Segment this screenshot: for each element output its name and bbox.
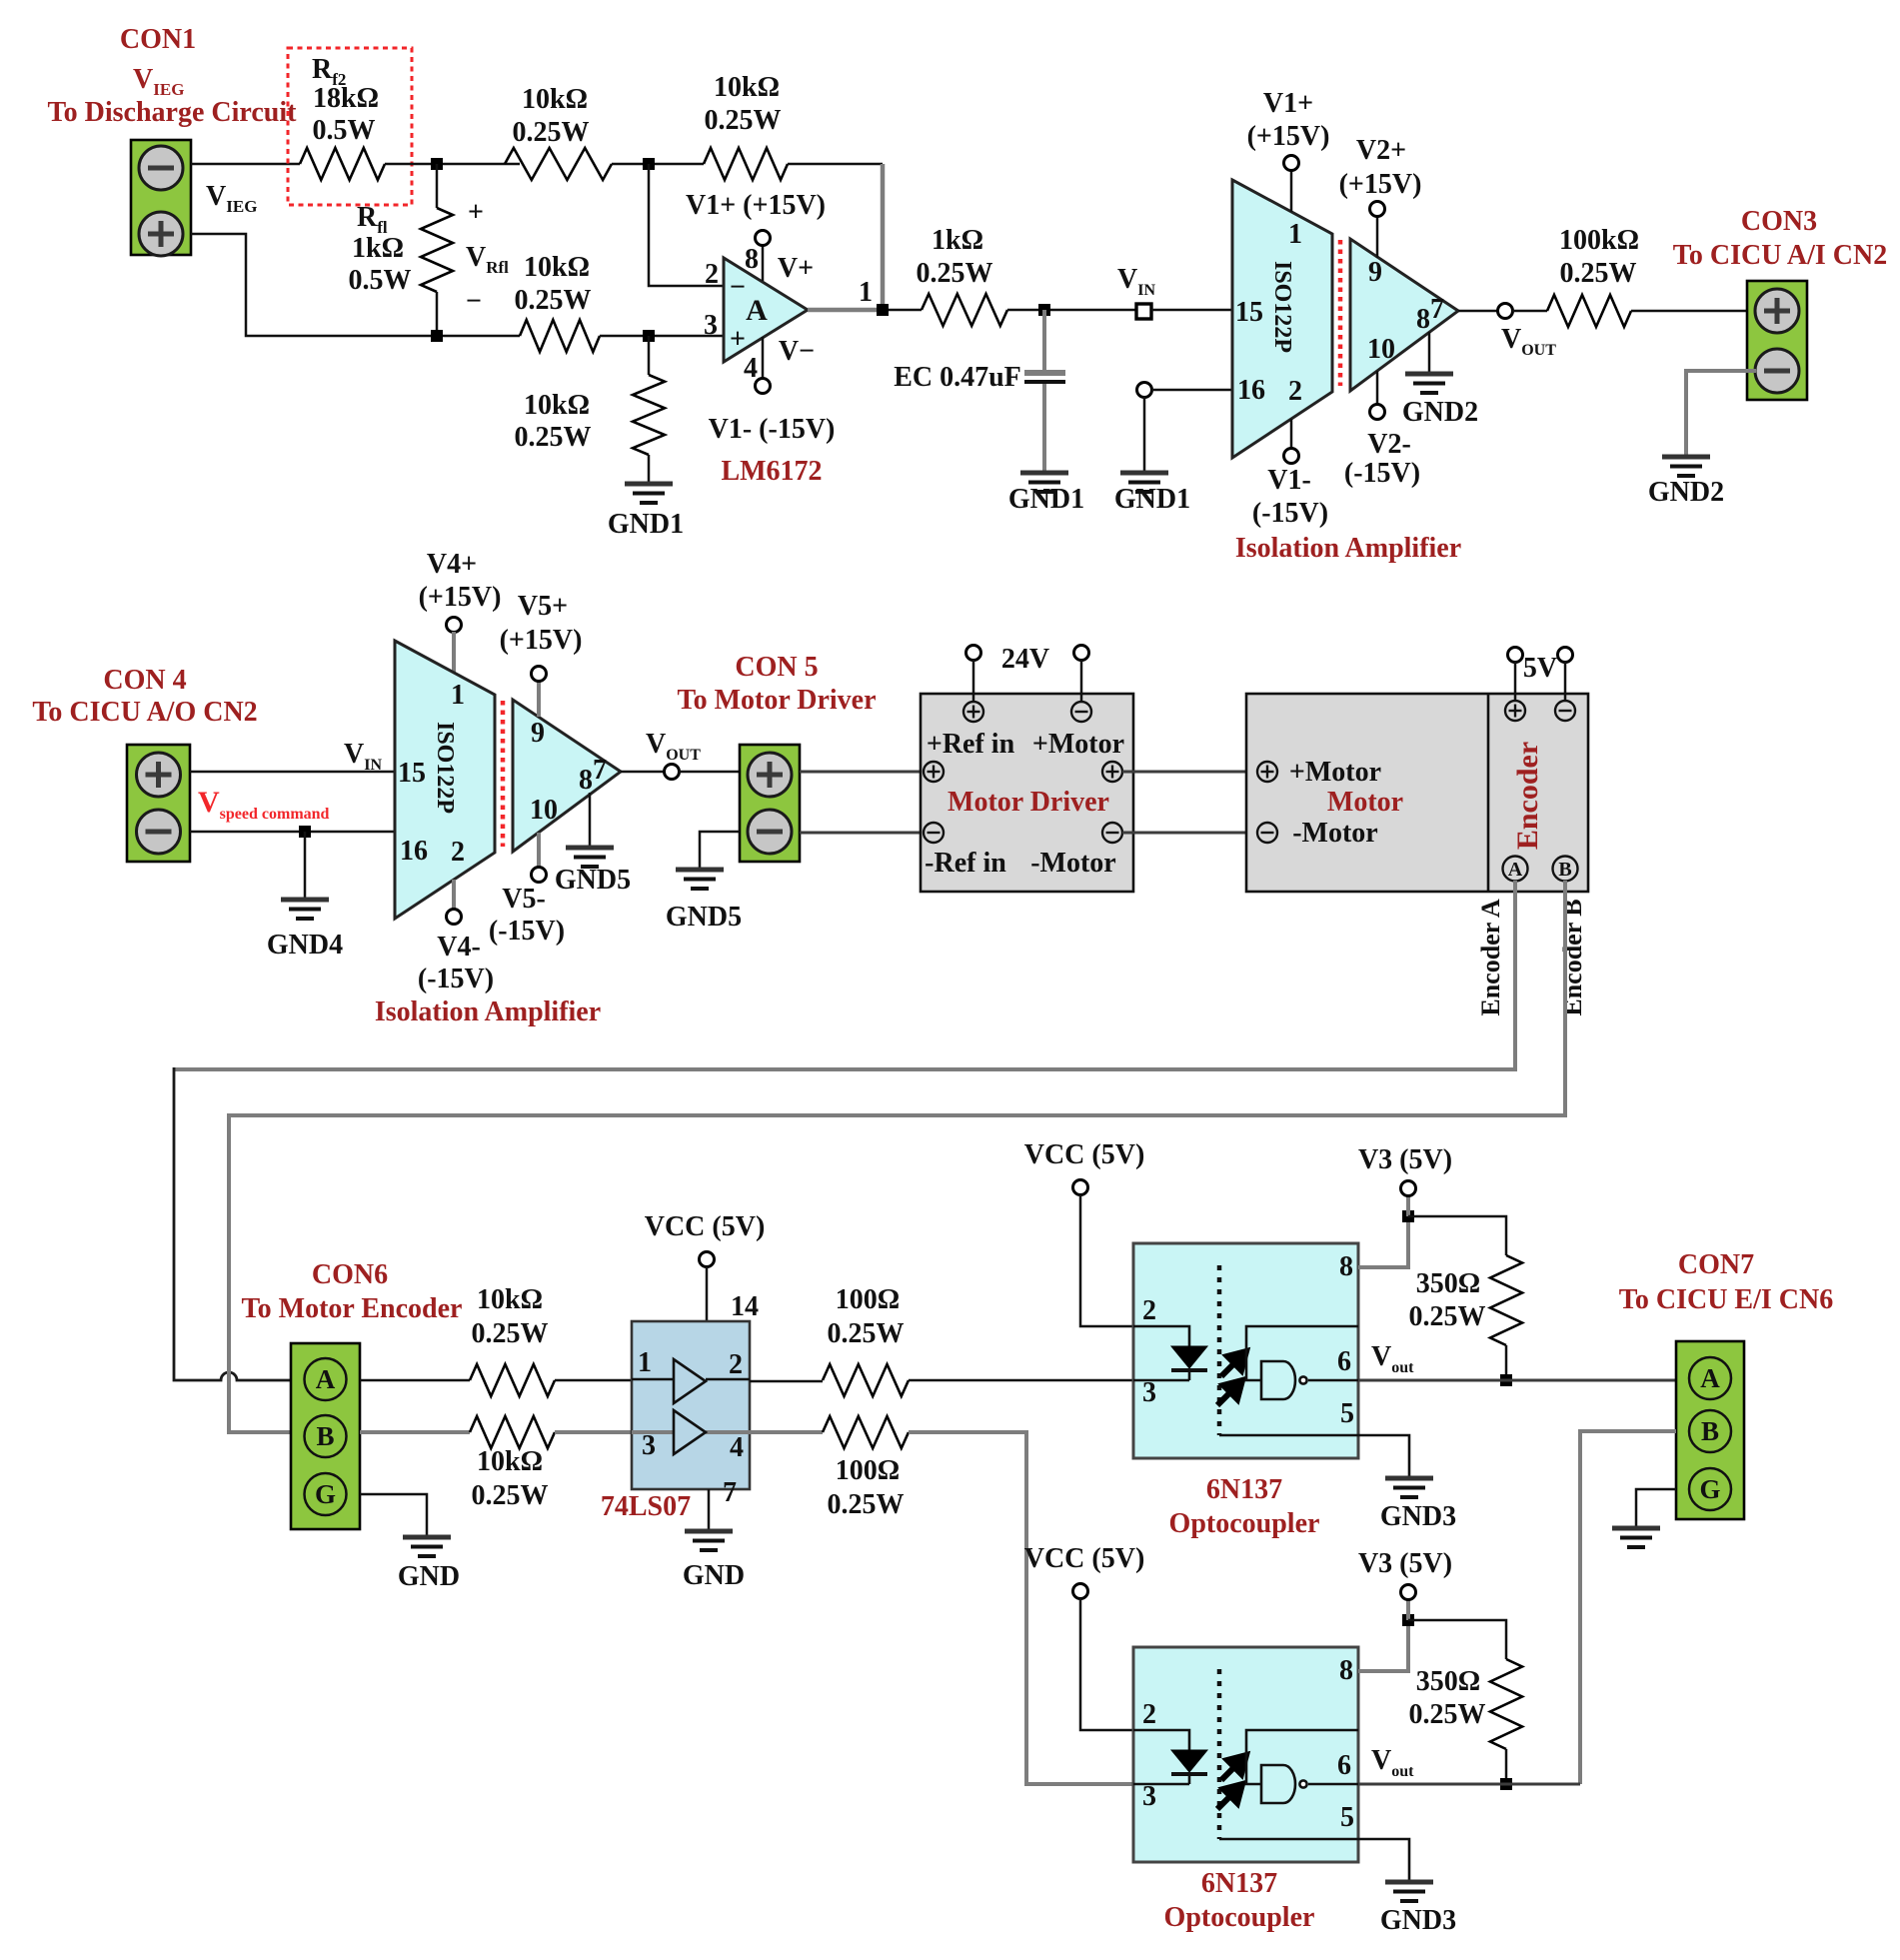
motor driver +Motor terminal	[1102, 762, 1122, 782]
resistor R11 350 0.25W	[1490, 1255, 1522, 1345]
wire R6 to CON3	[1631, 310, 1747, 313]
svg-text:18kΩ: 18kΩ	[313, 83, 379, 114]
svg-text:GND3: GND3	[1380, 1905, 1456, 1936]
svg-text:V1-: V1-	[1267, 465, 1311, 496]
motor -Motor terminal	[1257, 823, 1277, 843]
wire U4 internal B out	[706, 1430, 750, 1434]
svg-text:Isolation Amplifier: Isolation Amplifier	[375, 996, 601, 1027]
resistor Rf2 18k 0.5W	[300, 148, 385, 180]
wire R3 to op-amp pin3	[600, 335, 724, 338]
svg-text:1: 1	[638, 1347, 652, 1378]
op-amp U1 pin 8 V+ stub	[762, 245, 765, 281]
optocoupler U6 isolation dotted line	[1217, 1669, 1222, 1839]
svg-text:GND2: GND2	[1648, 477, 1724, 508]
U3 V4- supply stub	[452, 880, 456, 910]
wire R10 to opto U6 pin 3	[909, 1432, 1133, 1784]
buffer U4 74LS07 body	[632, 1321, 750, 1489]
svg-text:8: 8	[745, 244, 759, 275]
wire CON4- to U3 pin 16	[190, 831, 395, 834]
svg-text:Optocoupler: Optocoupler	[1169, 1508, 1320, 1539]
stub V3 terminal U6	[1406, 1599, 1410, 1620]
junction output feedback node	[877, 304, 889, 316]
wire U4 internal A out	[706, 1378, 750, 1381]
optocoupler U5 LED diode	[1133, 1326, 1189, 1346]
resistor R12 350 0.25W	[1490, 1659, 1522, 1749]
connector CON4 terminal block	[127, 745, 190, 862]
svg-text:0.25W: 0.25W	[472, 1480, 549, 1511]
motor driver module box	[921, 694, 1133, 892]
svg-text:-Motor: -Motor	[1030, 848, 1116, 879]
svg-text:1kΩ: 1kΩ	[352, 233, 404, 264]
isolation amplifier U2 ISO122P input trapezoid	[1232, 180, 1332, 458]
svg-text:+Motor: +Motor	[1289, 757, 1381, 788]
junction R11 Vout node	[1500, 1374, 1512, 1386]
svg-text:1: 1	[859, 277, 873, 308]
U2 V1+ supply stub	[1290, 170, 1293, 212]
ground GND under CON6	[403, 1537, 451, 1556]
svg-text:-Motor: -Motor	[1292, 818, 1378, 849]
wire U4 internal B	[632, 1430, 674, 1434]
svg-text:0.25W: 0.25W	[515, 285, 592, 316]
U5 pin 5 wire to GND3	[1219, 1435, 1409, 1476]
svg-text:VCC (5V): VCC (5V)	[1024, 1139, 1145, 1170]
ground under CON7 G	[1612, 1528, 1660, 1547]
svg-text:A: A	[746, 294, 768, 327]
wire R1 to R2	[612, 163, 704, 166]
optocoupler U6 6N137 body	[1133, 1647, 1358, 1862]
svg-text:−: −	[730, 272, 746, 303]
node VOUT terminal	[1498, 304, 1513, 319]
svg-text:V1+: V1+	[1263, 88, 1313, 119]
svg-text:0.25W: 0.25W	[828, 1318, 905, 1349]
ground GND2 under U2	[1405, 374, 1453, 393]
svg-text:−: −	[466, 286, 482, 317]
wire output to R5	[883, 309, 922, 312]
svg-text:V3 (5V): V3 (5V)	[1358, 1548, 1452, 1579]
encoder 5V supply terminals	[1508, 648, 1523, 663]
wire junction to R4	[648, 336, 651, 375]
optocoupler U6 LED diode	[1133, 1730, 1189, 1750]
svg-text:Encoder A: Encoder A	[1476, 899, 1505, 1015]
motor driver +Ref in terminal	[924, 762, 944, 782]
svg-text:0.25W: 0.25W	[917, 258, 993, 289]
svg-text:100Ω: 100Ω	[836, 1455, 900, 1486]
motor driver +24V terminal	[963, 702, 983, 722]
node VIN terminal	[1136, 304, 1151, 319]
svg-text:GND4: GND4	[267, 930, 343, 961]
svg-text:0.25W: 0.25W	[1409, 1301, 1486, 1332]
svg-text:B: B	[316, 1421, 334, 1451]
svg-text:V3 (5V): V3 (5V)	[1358, 1144, 1452, 1175]
wire R7 to 74LS07 pin 1	[555, 1379, 632, 1382]
junction GND4 node	[299, 826, 311, 838]
motor driver -Ref in terminal	[924, 823, 944, 843]
svg-text:1: 1	[1288, 219, 1302, 250]
capacitor EC 0.47uF	[1042, 310, 1046, 371]
svg-text:5: 5	[1340, 1398, 1354, 1429]
svg-text:VCC (5V): VCC (5V)	[645, 1211, 766, 1242]
wire VOUT2 to CON5	[679, 771, 740, 774]
svg-text:GND5: GND5	[555, 865, 631, 896]
wire VCC to U5 pin 2	[1080, 1194, 1133, 1326]
svg-text:To Discharge Circuit: To Discharge Circuit	[48, 97, 298, 128]
junction R4 top	[643, 330, 655, 342]
connector CON6 terminal block	[291, 1343, 360, 1529]
svg-text:V+: V+	[778, 253, 814, 284]
wire Rf2 to 10k R1	[385, 163, 520, 166]
resistor Rf1 1k 0.5W	[421, 208, 453, 292]
svg-text:14: 14	[731, 1291, 759, 1322]
motor driver -Motor terminal	[1102, 823, 1122, 843]
svg-text:V1- (-15V): V1- (-15V)	[709, 414, 836, 445]
junction capacitor EC top	[1038, 304, 1050, 316]
svg-text:+: +	[468, 197, 484, 228]
svg-text:LM6172: LM6172	[721, 456, 822, 487]
svg-text:0.5W: 0.5W	[349, 265, 412, 296]
U3 V4+ terminal	[447, 618, 462, 633]
svg-text:+: +	[730, 324, 746, 355]
wire R11 to Vout	[1505, 1345, 1508, 1380]
wire R8 to 74LS07 pin 3	[555, 1430, 632, 1434]
svg-text:A: A	[1700, 1363, 1720, 1393]
svg-text:(+15V): (+15V)	[500, 625, 583, 656]
ground GND5 under CON5	[676, 870, 724, 889]
wire encoder A to CON6 A	[174, 881, 1515, 1069]
svg-text:V4+: V4+	[427, 549, 477, 580]
resistor R4 10k 0.25W to ground	[633, 375, 665, 455]
svg-text:Optocoupler: Optocoupler	[1164, 1902, 1315, 1933]
svg-text:V2-: V2-	[1367, 429, 1411, 460]
svg-text:10kΩ: 10kΩ	[477, 1284, 543, 1315]
wire feedback drop to output node	[881, 164, 886, 310]
svg-text:10: 10	[1367, 334, 1395, 365]
isolation amplifier U2 barrier dotted line	[1338, 240, 1343, 386]
svg-text:3: 3	[704, 310, 718, 341]
svg-text:10kΩ: 10kΩ	[524, 390, 590, 421]
wire CON5+ to motor driver +Ref in	[800, 771, 924, 774]
svg-text:(-15V): (-15V)	[1252, 498, 1328, 529]
U5 pin 8 wire to V3	[1358, 1216, 1408, 1267]
svg-text:A: A	[1508, 859, 1523, 881]
svg-text:ISO122P: ISO122P	[1269, 261, 1295, 353]
svg-text:To Motor Driver: To Motor Driver	[677, 685, 876, 716]
svg-text:V5+: V5+	[518, 591, 568, 622]
encoder +5V terminal	[1505, 701, 1525, 721]
svg-text:0.25W: 0.25W	[705, 105, 782, 136]
svg-text:5V: 5V	[1523, 653, 1557, 684]
svg-text:(-15V): (-15V)	[489, 916, 565, 947]
wire CON3- to GND2	[1686, 371, 1756, 455]
wire U4 internal A	[632, 1378, 674, 1381]
wire U6 gate output	[1308, 1783, 1358, 1786]
svg-text:CON 4: CON 4	[103, 665, 186, 696]
svg-text:GND1: GND1	[1008, 484, 1084, 515]
svg-text:4: 4	[730, 1432, 744, 1463]
svg-text:GND: GND	[398, 1561, 460, 1592]
encoder output A terminal	[1503, 857, 1528, 882]
svg-text:CON6: CON6	[312, 1259, 388, 1290]
U3 V5- supply stub	[537, 833, 541, 868]
resistor R9 100 0.25W	[823, 1364, 909, 1396]
optocoupler U5 output gate	[1261, 1361, 1295, 1399]
svg-text:VCC (5V): VCC (5V)	[1024, 1543, 1145, 1574]
svg-text:CON7: CON7	[1678, 1249, 1754, 1280]
svg-text:GND1: GND1	[1114, 484, 1190, 515]
svg-text:(-15V): (-15V)	[418, 964, 494, 994]
resistor R5 1k 0.25W	[922, 294, 1007, 326]
junction V3 node U6	[1402, 1614, 1414, 1626]
svg-text:2: 2	[1142, 1295, 1156, 1326]
svg-text:3: 3	[1142, 1377, 1156, 1408]
motor +Motor terminal	[1257, 762, 1277, 782]
svg-text:GND: GND	[683, 1560, 745, 1591]
svg-text:15: 15	[1235, 297, 1263, 328]
wire U4 pin4 to R10	[750, 1430, 823, 1434]
resistor R10 100 0.25W	[823, 1416, 909, 1448]
svg-text:(+15V): (+15V)	[419, 582, 502, 613]
svg-text:2: 2	[1288, 376, 1302, 407]
stub V3 terminal U5	[1406, 1195, 1410, 1216]
svg-text:0.25W: 0.25W	[515, 422, 592, 453]
svg-text:8: 8	[1416, 304, 1430, 335]
svg-text:GND2: GND2	[1402, 397, 1478, 428]
svg-text:ISO122P: ISO122P	[432, 722, 458, 814]
wire feedback top	[788, 163, 883, 166]
svg-text:CON1: CON1	[120, 24, 196, 55]
svg-text:10kΩ: 10kΩ	[714, 72, 780, 103]
resistor R8 10k 0.25W	[470, 1416, 555, 1448]
ground GND under U4	[685, 1531, 733, 1550]
svg-text:-Ref in: -Ref in	[925, 848, 1006, 879]
junction node Rf1 top	[431, 158, 443, 170]
wire R12 to Vout	[1505, 1749, 1508, 1784]
U2 V1- supply stub	[1290, 419, 1293, 449]
svg-text:To Motor Encoder: To Motor Encoder	[242, 1293, 463, 1324]
ground GND3 under U6	[1385, 1882, 1433, 1901]
wire GND1 to ISO122P pin 16	[1151, 389, 1232, 392]
svg-text:V−: V−	[779, 336, 815, 367]
wire V3 to R12	[1408, 1620, 1506, 1659]
wire CON5- to GND5	[700, 832, 740, 868]
ground GND5 under U3	[566, 848, 614, 867]
wire CON5- to motor driver -Ref in	[800, 832, 924, 835]
wire VOUT to R6	[1512, 310, 1547, 313]
svg-text:1: 1	[451, 680, 465, 711]
U6 pin 5 wire to GND3	[1219, 1839, 1409, 1880]
svg-text:9: 9	[1368, 257, 1382, 288]
svg-text:15: 15	[398, 758, 426, 789]
junction node op-amp inverting	[643, 158, 655, 170]
wire R5 to VIN node	[1007, 309, 1136, 312]
svg-text:0.25W: 0.25W	[472, 1318, 549, 1349]
wire CON6 B to R8	[360, 1430, 470, 1434]
svg-text:3: 3	[642, 1430, 656, 1461]
svg-text:V1+ (+15V): V1+ (+15V)	[686, 190, 826, 221]
svg-text:8: 8	[1339, 1655, 1353, 1686]
svg-text:Encoder B: Encoder B	[1558, 899, 1587, 1015]
svg-text:0.5W: 0.5W	[313, 115, 376, 146]
svg-text:B: B	[1558, 859, 1571, 881]
resistor R2 10k 0.25W feedback	[704, 148, 788, 180]
wire U5 Vout to CON7 A	[1358, 1379, 1676, 1382]
svg-text:10kΩ: 10kΩ	[477, 1446, 543, 1477]
svg-text:3: 3	[1142, 1781, 1156, 1812]
wire R4 to GND1	[648, 455, 651, 484]
wire U6 Vout to CON7 B	[1580, 1431, 1676, 1784]
ground GND2 under CON3	[1662, 457, 1710, 476]
svg-text:Isolation Amplifier: Isolation Amplifier	[1235, 533, 1461, 564]
svg-text:G: G	[315, 1479, 336, 1509]
svg-text:Motor Driver: Motor Driver	[948, 787, 1109, 818]
node VOUT2 terminal	[665, 765, 680, 780]
resistor R7 10k 0.25W	[470, 1364, 555, 1396]
optocoupler U5 internal enable wire	[1246, 1326, 1358, 1380]
wire CON1+ to plus rail	[191, 234, 520, 336]
connector CON3 terminal block	[1747, 281, 1807, 400]
svg-text:CON 5: CON 5	[735, 652, 818, 683]
wire CON1- to Rf2	[191, 163, 300, 166]
buffer U4 gate 2 triangle	[674, 1410, 706, 1454]
wire encoder B to CON6 B	[229, 881, 1565, 1432]
svg-text:2: 2	[1142, 1699, 1156, 1730]
svg-text:V2+: V2+	[1356, 135, 1406, 166]
svg-text:0.25W: 0.25W	[1560, 258, 1637, 289]
svg-text:+Motor: +Motor	[1032, 729, 1124, 760]
svg-text:8: 8	[1339, 1251, 1353, 1282]
svg-text:CON3: CON3	[1741, 206, 1817, 237]
U6 pin 8 wire to V3	[1358, 1620, 1408, 1671]
svg-text:V4-: V4-	[437, 932, 481, 963]
wire motor driver to motor +	[1122, 771, 1257, 774]
svg-text:To CICU A/I CN2: To CICU A/I CN2	[1673, 240, 1887, 271]
optocoupler U5 light arrows	[1217, 1351, 1246, 1405]
svg-text:4: 4	[744, 353, 758, 384]
svg-text:6N137: 6N137	[1206, 1474, 1282, 1505]
wire inverting input to op-amp pin2	[649, 164, 724, 286]
svg-text:6: 6	[1337, 1750, 1351, 1781]
wire Rf1 to plus rail	[436, 292, 439, 336]
svg-text:(-15V): (-15V)	[1344, 458, 1420, 489]
U2 V2+ supply stub	[1376, 216, 1379, 258]
node GND1 terminal for pin16	[1137, 383, 1152, 398]
wire op-amp output	[808, 308, 883, 313]
svg-text:8: 8	[579, 765, 593, 796]
svg-text:7: 7	[723, 1477, 737, 1508]
wire VIN to ISO122P pin 15	[1151, 309, 1232, 312]
svg-text:0.25W: 0.25W	[1409, 1699, 1486, 1730]
svg-text:2: 2	[729, 1349, 743, 1380]
optocoupler U6 internal enable wire	[1246, 1730, 1358, 1784]
wire U5 gate output	[1308, 1379, 1358, 1382]
motor and encoder box	[1246, 694, 1588, 892]
svg-text:0.25W: 0.25W	[828, 1489, 905, 1520]
ground GND1 under capacitor	[1020, 473, 1068, 492]
svg-text:2: 2	[705, 259, 719, 290]
motor driver 24V supply terminals	[966, 646, 981, 661]
optocoupler U5 6N137 body	[1133, 1243, 1358, 1458]
junction V3 node U5	[1402, 1210, 1414, 1222]
U4 GND stub	[708, 1489, 711, 1529]
svg-text:GND3: GND3	[1380, 1501, 1456, 1532]
optocoupler U6 output gate	[1261, 1765, 1295, 1803]
svg-text:6N137: 6N137	[1201, 1868, 1277, 1899]
svg-text:G: G	[1699, 1474, 1720, 1504]
encoder -5V terminal	[1555, 701, 1575, 721]
resistor R1 10k 0.25W	[505, 148, 612, 180]
svg-text:(+15V): (+15V)	[1247, 121, 1330, 152]
wire U3 output	[621, 771, 665, 774]
svg-text:16: 16	[400, 836, 428, 867]
svg-text:Motor: Motor	[1327, 787, 1403, 818]
svg-text:6: 6	[1337, 1346, 1351, 1377]
svg-text:16: 16	[1237, 375, 1265, 406]
svg-text:1kΩ: 1kΩ	[932, 225, 983, 256]
svg-text:9: 9	[531, 718, 545, 749]
wire U4 pin2 to R9	[750, 1380, 823, 1383]
svg-text:100kΩ: 100kΩ	[1559, 225, 1639, 256]
GND4 stub	[304, 832, 307, 898]
svg-text:10: 10	[530, 795, 558, 826]
svg-text:74LS07: 74LS07	[601, 1491, 691, 1522]
resistor Rf2 dashed highlight box	[288, 48, 412, 205]
svg-text:EC 0.47uF: EC 0.47uF	[894, 362, 1021, 393]
resistor R6 100k 0.25W	[1547, 295, 1631, 327]
svg-text:10kΩ: 10kΩ	[522, 84, 588, 115]
svg-text:To CICU E/I CN6: To CICU E/I CN6	[1619, 1284, 1833, 1315]
isolation amplifier U3 barrier dotted line	[501, 701, 506, 847]
junction Rf1 bottom	[431, 330, 443, 342]
connector CON1 terminal block	[131, 140, 191, 256]
svg-text:24V: 24V	[1001, 644, 1049, 675]
wire R9 to opto U5 pin 3	[909, 1379, 1133, 1382]
svg-text:GND5: GND5	[666, 902, 742, 933]
op-amp U1 LM6172 triangle	[724, 258, 808, 362]
svg-text:10kΩ: 10kΩ	[524, 252, 590, 283]
resistor R3 10k 0.25W	[520, 320, 600, 352]
junction R12 Vout node	[1500, 1778, 1512, 1790]
wire to Rf1	[436, 164, 439, 208]
wire CON7 G to ground	[1636, 1489, 1676, 1526]
svg-text:350Ω: 350Ω	[1416, 1268, 1480, 1299]
wire CON6 G to GND	[360, 1494, 427, 1535]
svg-text:0.25W: 0.25W	[513, 117, 590, 148]
ground GND4	[281, 900, 329, 919]
ground GND1 under pin16	[1120, 473, 1168, 492]
svg-text:B: B	[1701, 1416, 1719, 1446]
U2 GND2 stub	[1428, 332, 1431, 372]
U3 V5+ supply stub	[537, 681, 541, 717]
U2 V2- supply stub	[1376, 371, 1379, 405]
optocoupler U6 light arrows	[1217, 1755, 1246, 1809]
wire U2 output	[1458, 310, 1498, 313]
wire CON6 A to R7	[360, 1379, 470, 1382]
optocoupler U5 isolation dotted line	[1217, 1265, 1222, 1435]
connector CON5 terminal block	[740, 745, 800, 862]
op-amp U1 pin 4 V- stub	[762, 337, 765, 379]
U3 V4+ stub	[452, 632, 456, 674]
svg-text:100Ω: 100Ω	[836, 1284, 900, 1315]
ground GND1 under R4	[625, 484, 673, 503]
svg-text:350Ω: 350Ω	[1416, 1666, 1480, 1697]
U3 GND5 stub	[589, 793, 592, 846]
svg-text:+Ref in: +Ref in	[927, 729, 1015, 760]
svg-text:7: 7	[593, 755, 607, 786]
svg-text:GND1: GND1	[608, 509, 684, 540]
isolation amplifier U3 output triangle	[513, 700, 621, 852]
svg-text:V5-: V5-	[502, 884, 546, 915]
svg-text:A: A	[316, 1364, 336, 1394]
encoder output B terminal	[1553, 857, 1578, 882]
